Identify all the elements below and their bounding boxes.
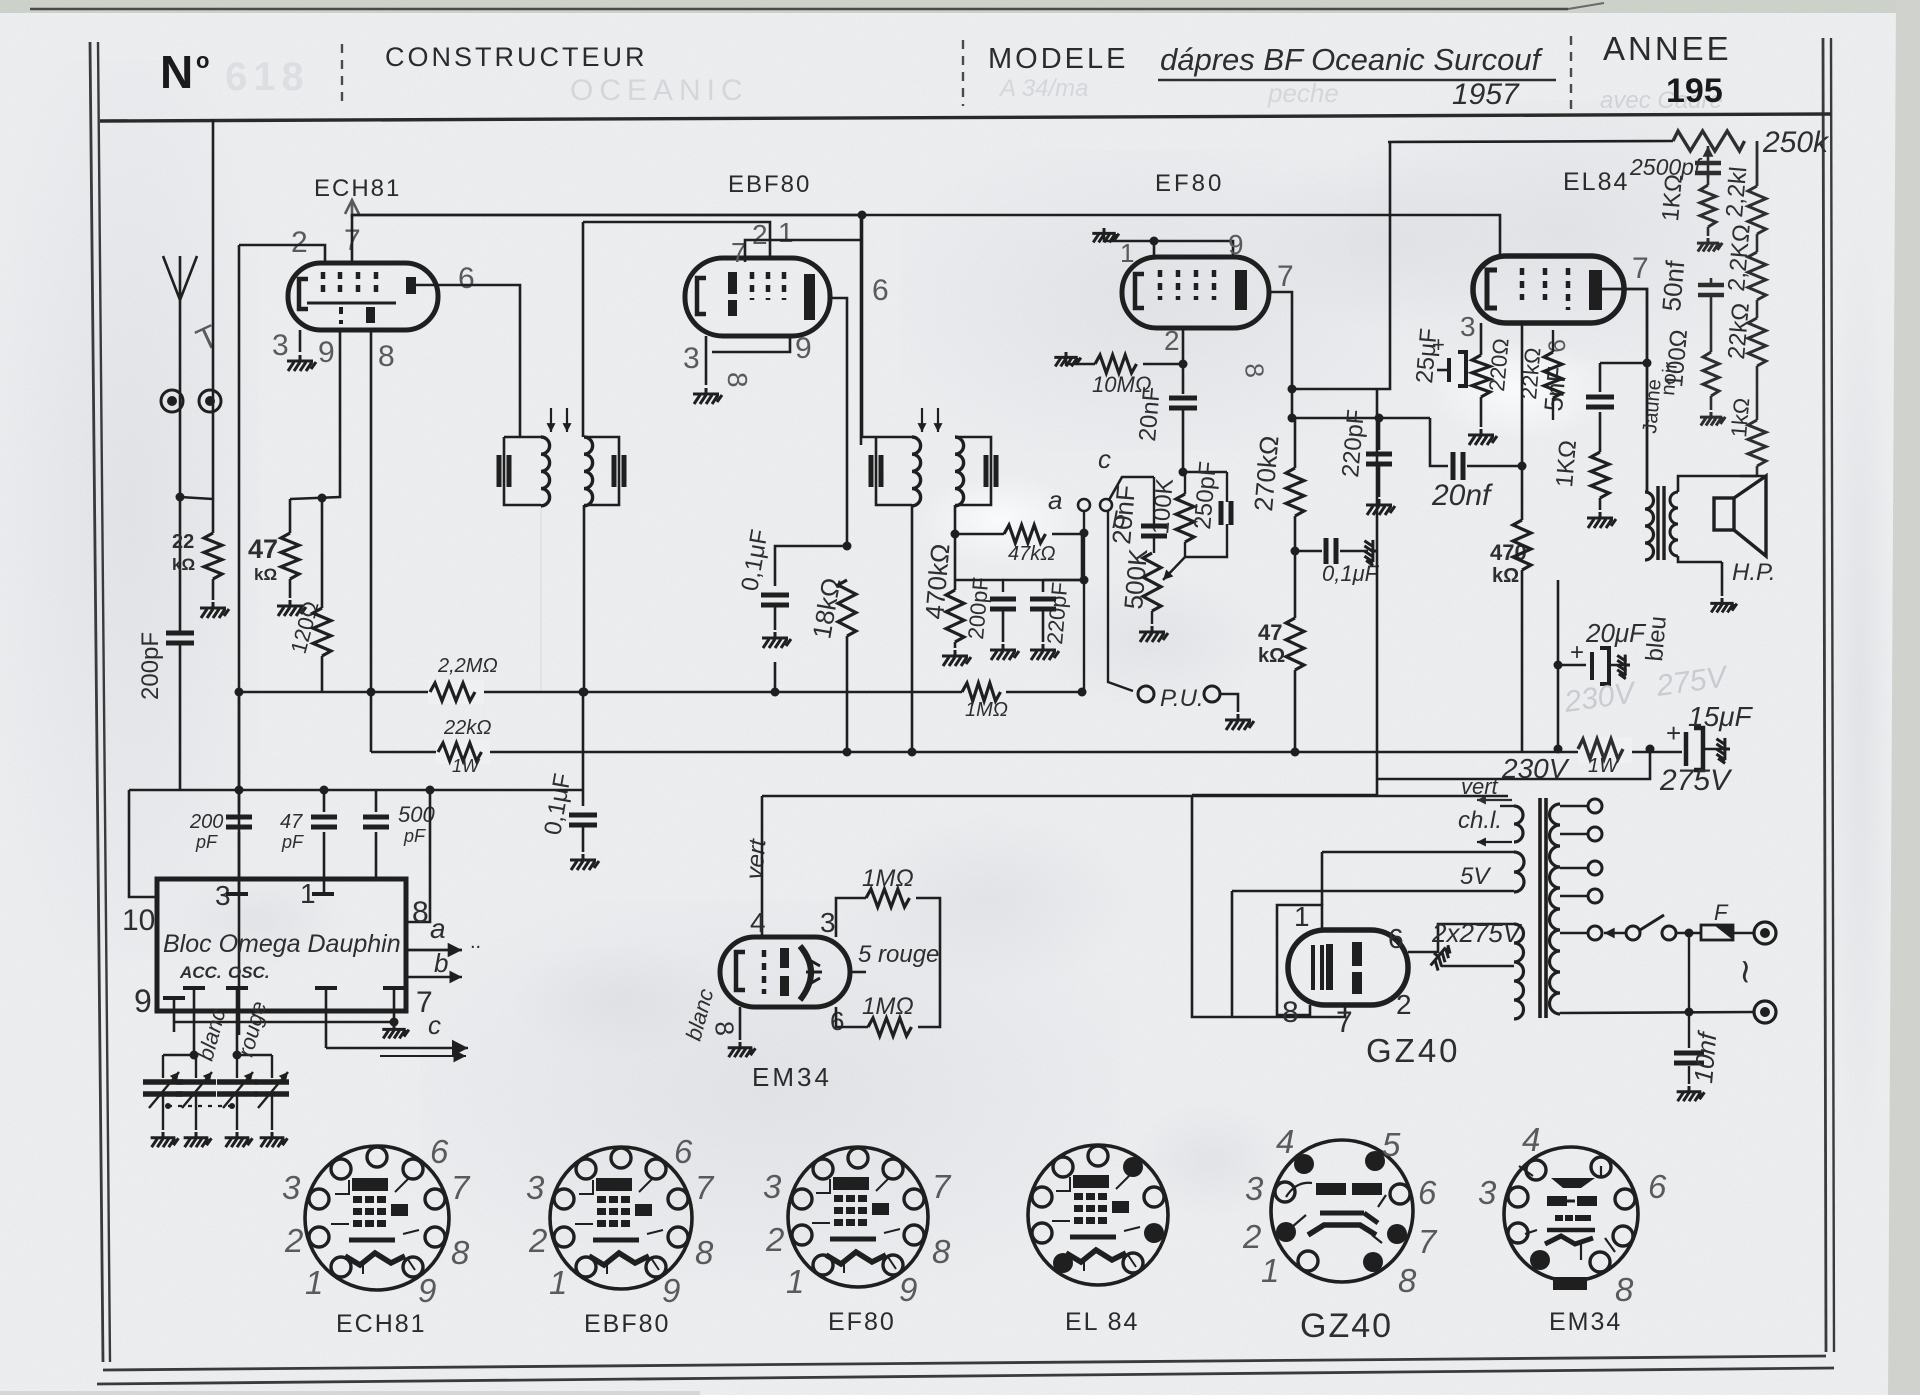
junction 18k bus	[843, 748, 852, 757]
wire plate bus y418	[1292, 417, 1430, 420]
svg-text:1KΩ: 1KΩ	[1657, 173, 1688, 222]
svg-text:5 rouge: 5 rouge	[858, 941, 939, 968]
svg-text:1: 1	[1294, 901, 1310, 932]
wire EL84 plate to transformer	[1602, 289, 1647, 492]
wire 250k corner down	[1756, 141, 1759, 186]
svg-text:8: 8	[451, 1234, 470, 1271]
svg-text:3: 3	[526, 1169, 545, 1206]
faint paper shading	[0, 0, 1, 1]
svg-text:8: 8	[695, 1234, 714, 1271]
svg-text:2: 2	[1396, 989, 1412, 1020]
svg-text:pF: pF	[403, 826, 426, 846]
svg-text:2: 2	[284, 1222, 303, 1259]
svg-text:1: 1	[778, 217, 794, 248]
svg-text:200pF: 200pF	[137, 632, 164, 700]
bus y790	[129, 789, 583, 792]
svg-text:47: 47	[280, 811, 303, 833]
socket EL84	[1028, 1145, 1168, 1285]
antenna line to 790	[179, 644, 182, 790]
svg-text:4: 4	[1522, 1121, 1540, 1158]
wire T2 coil drops	[911, 505, 914, 752]
svg-text:ECH81: ECH81	[336, 1310, 427, 1338]
bus y472	[1180, 471, 1227, 474]
capacitor 15uF	[1646, 745, 1655, 754]
svg-text:20nF: 20nF	[1134, 386, 1166, 443]
svg-text:EF80: EF80	[828, 1308, 896, 1336]
mains terminal top	[1754, 922, 1776, 944]
svg-text:MODELE: MODELE	[988, 43, 1128, 75]
Bloc pin3 T	[226, 892, 248, 896]
IF transformer T1	[504, 436, 541, 439]
svg-text:47: 47	[248, 534, 278, 564]
svg-text:peche: peche	[1267, 78, 1339, 108]
svg-text:b: b	[1112, 507, 1125, 534]
Bloc bottom stubs	[163, 996, 185, 1000]
svg-text:8: 8	[709, 1020, 740, 1037]
svg-text:8: 8	[932, 1233, 951, 1270]
svg-text:bleu: bleu	[1641, 615, 1672, 663]
wire ECH81 pin7 to top bus	[352, 215, 861, 262]
svg-text:5V: 5V	[1460, 863, 1491, 890]
transformer bottom wire	[1560, 1012, 1754, 1013]
svg-text:o: o	[196, 48, 209, 73]
border frame right	[1823, 38, 1826, 1352]
svg-text:9: 9	[1228, 229, 1244, 260]
svg-text:1MΩ: 1MΩ	[965, 699, 1008, 721]
tube EF80	[1122, 257, 1269, 328]
svg-text:1: 1	[1261, 1252, 1279, 1289]
header separator line	[100, 114, 1831, 121]
bus AVC horizontal	[239, 691, 962, 694]
svg-text:GZ40: GZ40	[1366, 1032, 1461, 1069]
socket EM34	[1504, 1147, 1638, 1281]
svg-text:ch.l.: ch.l.	[1458, 807, 1502, 834]
IF transformer T2	[876, 436, 912, 439]
Bloc pin1 T	[312, 892, 334, 896]
wire EBF80 pin3 ground	[705, 336, 708, 385]
svg-text:22kΩ: 22kΩ	[1516, 347, 1545, 401]
svg-text:8: 8	[1239, 362, 1270, 379]
svg-text:3: 3	[683, 342, 700, 375]
junction 470k top	[951, 530, 960, 539]
svg-text:7: 7	[1277, 260, 1294, 293]
svg-text:+: +	[1570, 639, 1584, 666]
transformer core	[1540, 798, 1546, 1018]
svg-text:kΩ: kΩ	[172, 555, 195, 574]
svg-text:6: 6	[1418, 1174, 1437, 1211]
wire 47k node down	[1083, 533, 1085, 692]
svg-text:6: 6	[674, 1133, 693, 1170]
svg-text:Bloc Omega Dauphin: Bloc Omega Dauphin	[163, 930, 401, 958]
antenna terminal sockets	[161, 390, 183, 412]
svg-text:47kΩ: 47kΩ	[1008, 543, 1055, 565]
P.U. terminals	[1138, 686, 1154, 702]
svg-text:9: 9	[318, 336, 335, 369]
wire T1 secondary down	[583, 505, 586, 692]
wire EBF80 frame top	[582, 222, 585, 437]
svg-text:1957: 1957	[1452, 78, 1520, 111]
svg-text:A 34/ma: A 34/ma	[998, 75, 1089, 102]
wire GZ40 pin6 to HV	[1408, 924, 1514, 952]
svg-text:EBF80: EBF80	[728, 171, 811, 198]
junction EBF80 plate/18k	[843, 542, 852, 551]
wire ECH81 pin6 plate out	[416, 285, 520, 437]
svg-text:pF: pF	[195, 832, 218, 852]
svg-text:1MΩ: 1MΩ	[862, 865, 914, 892]
svg-text:9: 9	[662, 1272, 680, 1309]
wire pin10 feed	[129, 790, 157, 897]
HV centre tap ground	[1426, 942, 1454, 972]
arrow c long	[326, 1047, 468, 1050]
svg-text:1W: 1W	[452, 756, 481, 776]
Bloc Omega Dauphin box	[157, 879, 406, 1011]
ECH81 pin 1 arrow	[351, 200, 354, 218]
svg-text:EM34: EM34	[752, 1062, 832, 1092]
wire B+ riser x1377	[1376, 389, 1379, 779]
wire 220pF to c-switch	[1043, 534, 1082, 580]
svg-text:3: 3	[1460, 311, 1476, 342]
svg-text:6: 6	[1388, 923, 1404, 954]
svg-text:2x275V: 2x275V	[1431, 918, 1523, 948]
resistor 10M	[1054, 352, 1081, 366]
tube ECH81	[288, 263, 438, 330]
svg-text:noir: noir	[1657, 361, 1682, 396]
svg-text:kΩ: kΩ	[1492, 565, 1519, 587]
svg-text:8: 8	[1615, 1271, 1634, 1308]
svg-text:vert: vert	[741, 837, 772, 881]
svg-text:200: 200	[189, 811, 223, 833]
svg-text:9: 9	[418, 1272, 436, 1309]
svg-text:GZ40: GZ40	[1300, 1307, 1393, 1345]
header column dashed separators	[341, 44, 343, 108]
ground pin7	[382, 1024, 409, 1038]
svg-text:EM34: EM34	[1549, 1308, 1622, 1336]
capacitor 0,1uF plate	[1295, 550, 1322, 553]
tube GZ40	[1288, 930, 1408, 1005]
wire EF80 pin7 plate down	[1269, 292, 1292, 418]
svg-text:250k: 250k	[1762, 126, 1830, 159]
svg-text:+: +	[1432, 332, 1445, 357]
svg-text:3: 3	[763, 1168, 782, 1205]
gang dashed link	[168, 1105, 232, 1107]
svg-text:ECH81: ECH81	[314, 175, 401, 202]
T1 tuning arrows	[550, 408, 552, 432]
svg-text:10nf: 10nf	[1688, 1029, 1723, 1085]
svg-text:7: 7	[932, 1168, 952, 1205]
socket EBF80	[550, 1147, 692, 1289]
svg-text:3: 3	[1478, 1174, 1497, 1211]
svg-text:4: 4	[1276, 1123, 1294, 1160]
tuning gang capacitor 1 (variable)	[163, 1054, 196, 1056]
svg-text:50nf: 50nf	[1656, 259, 1690, 313]
svg-text:7: 7	[1418, 1223, 1438, 1260]
svg-text:10: 10	[122, 904, 155, 937]
wire ECH81 pin3 to ground	[299, 330, 302, 352]
tuning gang capacitor 4 (trimmer)	[271, 1055, 273, 1078]
svg-text:3: 3	[282, 1169, 301, 1206]
svg-text:ACC.: ACC.	[179, 963, 222, 982]
wire top bus from ECH81 to EBF80 column	[860, 215, 863, 445]
svg-text:8: 8	[378, 340, 395, 373]
svg-text:5: 5	[1382, 1126, 1401, 1163]
wire GZ40 inner loop	[1277, 905, 1322, 1015]
svg-text:8: 8	[412, 896, 429, 929]
tube EM34	[720, 937, 850, 1007]
svg-text:OCEANIC: OCEANIC	[570, 74, 749, 107]
svg-text:ANNEE: ANNEE	[1603, 30, 1732, 67]
wire under box	[174, 1021, 394, 1023]
tube EBF80	[685, 258, 830, 336]
wire ECH81 grid frame	[239, 245, 325, 262]
svg-text:6: 6	[458, 262, 475, 295]
bus B+ horizontal (22k 1W)	[371, 751, 1682, 754]
svg-text:7: 7	[1336, 1006, 1353, 1039]
svg-text:3: 3	[272, 329, 289, 362]
svg-text:EBF80: EBF80	[584, 1310, 670, 1338]
svg-text:7: 7	[695, 1169, 715, 1206]
wire 275V down-left	[1377, 749, 1650, 779]
wire EBF80 pin6 plate	[830, 298, 847, 546]
wire T1 primary bottom	[580, 688, 589, 697]
wire heater line vert	[762, 795, 1508, 798]
wire ECH81 pin8 down	[370, 330, 373, 752]
svg-text:kΩ: kΩ	[1258, 645, 1285, 667]
EL84 grid node	[1521, 322, 1524, 466]
wire switch to bottom	[1688, 933, 1690, 1012]
wire contact a to 47k	[1083, 511, 1085, 533]
svg-text:9: 9	[1542, 338, 1570, 354]
svg-text:195: 195	[1666, 72, 1723, 110]
svg-text:a: a	[430, 913, 446, 944]
svg-text:8: 8	[1398, 1262, 1417, 1299]
svg-text:N: N	[160, 46, 193, 98]
svg-text:2: 2	[752, 219, 768, 250]
speaker HP	[1678, 476, 1757, 492]
svg-text:2,2MΩ: 2,2MΩ	[437, 655, 498, 677]
svg-text:pF: pF	[281, 832, 304, 852]
wire top bus y215	[352, 215, 1500, 258]
ground EM34 pin8	[739, 1007, 742, 1040]
svg-text:6: 6	[430, 1133, 449, 1170]
T2 tuning arrows	[921, 408, 923, 432]
svg-text:..: ..	[470, 931, 481, 953]
svg-text:1kΩ: 1kΩ	[1726, 397, 1754, 439]
wire EBF80 pin9/8	[712, 336, 790, 352]
svg-text:3: 3	[820, 907, 836, 938]
resistor 47k detector	[955, 533, 1004, 536]
resistor 1W supply	[1578, 737, 1632, 763]
svg-text:F: F	[1714, 900, 1729, 925]
capacitor 10nF mains	[1688, 1012, 1690, 1048]
socket GZ40	[1271, 1140, 1413, 1282]
svg-text:9: 9	[899, 1271, 917, 1308]
svg-text:1: 1	[1120, 238, 1134, 268]
svg-text:∼: ∼	[1726, 958, 1764, 987]
capacitor 200pF antenna	[166, 633, 194, 643]
svg-text:OSC.: OSC.	[228, 963, 270, 982]
wire left rail x213	[212, 119, 215, 499]
wire top bus y142 to 250k	[1388, 141, 1673, 142]
wire top bus right segment	[448, 227, 861, 229]
tuning gang capacitor 3 (variable)	[236, 1055, 238, 1078]
svg-text:vert: vert	[1461, 774, 1499, 799]
svg-text:8: 8	[722, 372, 753, 388]
svg-text:c: c	[1098, 444, 1111, 474]
svg-text:2: 2	[291, 226, 308, 259]
antenna	[179, 300, 182, 497]
svg-text:CONSTRUCTEUR: CONSTRUCTEUR	[385, 42, 648, 72]
svg-text:6: 6	[1648, 1168, 1667, 1205]
svg-text:2: 2	[1164, 325, 1180, 356]
tube EL84	[1473, 256, 1624, 323]
ground HP	[1721, 562, 1724, 596]
socket ECH81	[305, 1146, 449, 1290]
wire EBF80 screen drop	[862, 215, 876, 437]
svg-text:1MΩ: 1MΩ	[862, 993, 914, 1020]
border frame bottom	[103, 1356, 1826, 1370]
svg-text:c: c	[428, 1010, 441, 1040]
wire 47k top node	[290, 330, 340, 499]
svg-text:2: 2	[765, 1221, 784, 1258]
transformer primary winding	[1550, 804, 1561, 1014]
svg-text:47: 47	[1258, 620, 1282, 645]
capacitor 20nF coupling to EL84	[1430, 418, 1448, 466]
wire EF80 plate feed	[1292, 142, 1390, 389]
svg-text:1W: 1W	[1588, 755, 1620, 777]
svg-text:22kΩ: 22kΩ	[443, 717, 491, 739]
svg-text:9: 9	[795, 332, 812, 365]
svg-text:b: b	[434, 948, 448, 978]
svg-text:8: 8	[1282, 996, 1299, 1029]
svg-text:2: 2	[1242, 1218, 1261, 1255]
svg-text:1: 1	[305, 1264, 323, 1301]
mains terminal bottom	[1754, 1001, 1776, 1023]
svg-text:+: +	[1666, 718, 1681, 748]
svg-text:1KΩ: 1KΩ	[1551, 439, 1582, 488]
svg-text:1: 1	[549, 1264, 567, 1301]
svg-text:1: 1	[786, 1263, 804, 1300]
mains switch	[1604, 932, 1626, 934]
svg-text:EL 84: EL 84	[1065, 1308, 1139, 1336]
primary taps	[1560, 805, 1588, 807]
svg-text:22: 22	[172, 531, 194, 553]
socket EF80	[788, 1147, 928, 1287]
wire supply vertical x1558	[1557, 580, 1560, 749]
svg-text:7: 7	[1632, 252, 1649, 285]
svg-text:3: 3	[1245, 1170, 1264, 1207]
capacitor 20uF bleu	[1554, 661, 1563, 670]
svg-text:a: a	[1048, 485, 1062, 515]
svg-text:20μF: 20μF	[1585, 618, 1647, 648]
svg-text:9: 9	[134, 983, 152, 1019]
power transformer HV winding	[1514, 924, 1524, 1019]
border frame left	[90, 42, 103, 1362]
svg-text:275V: 275V	[1659, 764, 1733, 797]
svg-text:20nf: 20nf	[1431, 479, 1493, 512]
svg-text:kΩ: kΩ	[254, 565, 277, 584]
svg-text:H.P.: H.P.	[1732, 559, 1776, 586]
wire EF80 pin2 grid	[1182, 328, 1185, 394]
svg-text:6: 6	[872, 274, 889, 307]
svg-text:EF80: EF80	[1155, 170, 1224, 197]
svg-text:7: 7	[451, 1169, 471, 1206]
resistor 2,2M	[428, 680, 484, 704]
wire GZ40 outer loop	[1192, 795, 1345, 1017]
EF80 pin1 ground	[1092, 228, 1119, 242]
resistor 250k	[1673, 131, 1745, 151]
svg-text:618: 618	[225, 55, 310, 99]
resistor 1M AVC	[962, 683, 1001, 701]
svg-text:dápres BF Oceanic Surcouf: dápres BF Oceanic Surcouf	[1160, 42, 1544, 77]
tuning gang capacitor 2 (variable)	[195, 1055, 197, 1078]
wire pin8 riser	[406, 790, 430, 922]
svg-text:2: 2	[528, 1222, 547, 1259]
scan edge top	[30, 8, 1568, 11]
svg-text:EL84: EL84	[1563, 168, 1629, 196]
svg-text:4: 4	[750, 907, 766, 938]
svg-text:P.U.: P.U.	[1160, 685, 1204, 712]
